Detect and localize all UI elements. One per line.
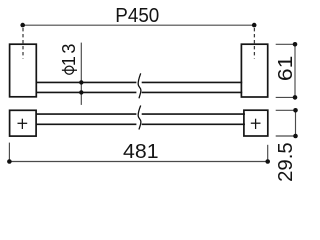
dimension 481: left dot: [7, 159, 12, 164]
plan view: bar bottom line right segment: [142, 123, 245, 125]
dimension P450: line: [23, 24, 255, 26]
dimension phi13: leader line: [80, 43, 82, 105]
front view: bar top line left segment: [36, 81, 136, 83]
dimension P450: right dot: [252, 23, 257, 28]
dimension P450: left dot: [20, 23, 25, 28]
dimension 61: top dot: [293, 42, 298, 47]
front view: left post centerline (dashed): [22, 28, 24, 59]
dimension 61: top extension line: [276, 43, 295, 45]
plan view: bar bottom line left segment: [36, 123, 136, 125]
plan view: bar top line left segment: [36, 113, 136, 115]
dimension 29.5: top extension line: [276, 109, 296, 111]
front view: break squiggle: [138, 73, 141, 98]
dimension 481: right extension line: [267, 145, 269, 162]
plan view: left center mark (+): [18, 119, 28, 129]
svg-text:29.5: 29.5: [275, 142, 297, 182]
front view: left post: [10, 44, 37, 97]
front view: right post centerline (dashed): [253, 28, 255, 59]
dimension 481: right dot: [265, 159, 270, 164]
dimension phi13: phi symbol: [62, 66, 77, 74]
plan view: left square: [10, 110, 36, 136]
svg-text:61: 61: [274, 56, 297, 82]
plan view: bar top line right segment: [142, 113, 245, 115]
dimension phi13: upper dot: [79, 80, 83, 84]
dimension 29.5: bottom extension line: [276, 135, 296, 137]
svg-text:481: 481: [123, 141, 159, 163]
svg-text:1: 1: [59, 56, 79, 66]
dimension 481: line: [9, 161, 267, 163]
front view: bar bottom line right segment: [142, 91, 243, 93]
dimension 29.5: top dot: [293, 108, 298, 113]
plan view: right square: [244, 110, 268, 136]
svg-text:3: 3: [59, 44, 79, 54]
front view: bar top line right segment: [142, 81, 243, 83]
dimension 29.5: bottom dot: [293, 134, 298, 139]
plan view: right center mark (+): [251, 119, 261, 129]
dimension 61: bottom dot: [293, 95, 298, 100]
dimension 481: left extension line: [8, 143, 10, 162]
front view: bar bottom line left segment: [36, 91, 136, 93]
dimension 61: bottom extension line: [276, 96, 295, 98]
plan view: break squiggle: [138, 106, 141, 130]
svg-text:P450: P450: [115, 4, 159, 27]
front view: right post: [241, 44, 267, 97]
dimension phi13: lower dot: [79, 90, 83, 94]
dimension 29.5: line: [295, 110, 297, 136]
dimension 61: line: [294, 44, 296, 97]
